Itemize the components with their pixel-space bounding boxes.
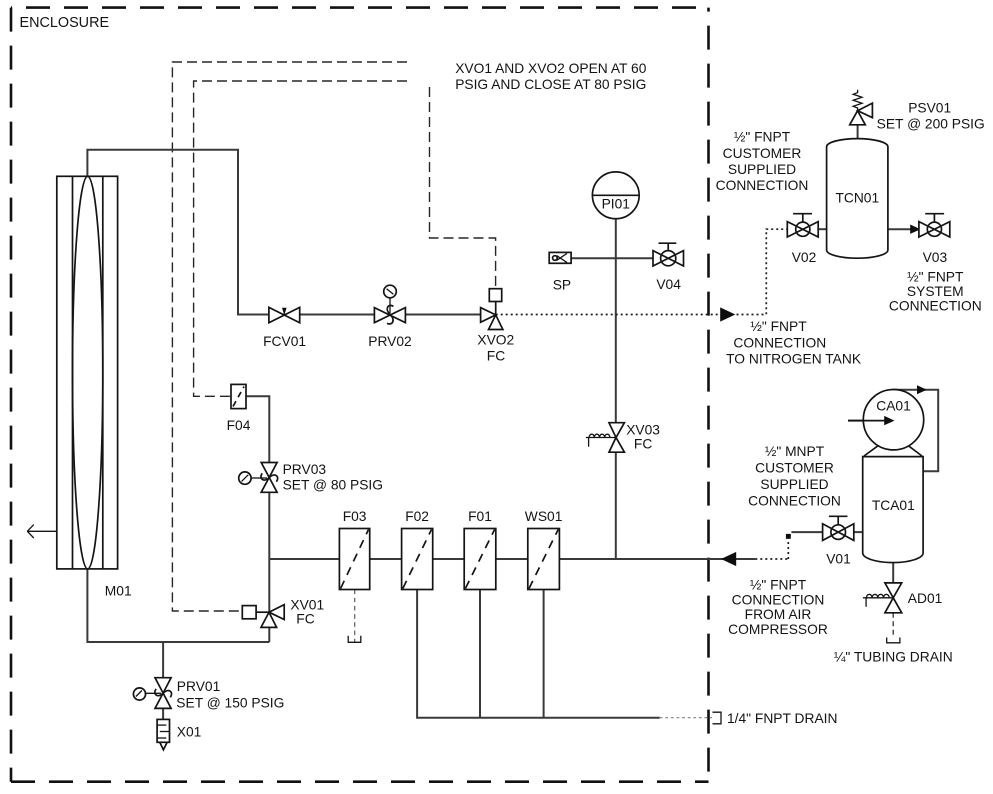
svg-text:TO NITROGEN TANK: TO NITROGEN TANK [726, 351, 862, 366]
svg-text:SUPPLIED: SUPPLIED [760, 477, 828, 492]
svg-text:SET @ 200 PSIG: SET @ 200 PSIG [877, 116, 985, 131]
svg-text:TCN01: TCN01 [835, 191, 879, 206]
svg-text:CONNECTION: CONNECTION [889, 299, 982, 314]
svg-text:V01: V01 [826, 552, 851, 567]
svg-text:XV03: XV03 [626, 423, 660, 438]
svg-text:1/4" FNPT DRAIN: 1/4" FNPT DRAIN [727, 711, 837, 726]
svg-text:COMPRESSOR: COMPRESSOR [728, 622, 828, 637]
svg-text:PSV01: PSV01 [908, 101, 951, 116]
svg-text:PI01: PI01 [602, 197, 630, 212]
svg-text:FC: FC [634, 437, 652, 452]
svg-text:M01: M01 [105, 584, 132, 599]
svg-text:½" FNPT: ½" FNPT [907, 270, 964, 285]
svg-text:SP: SP [553, 278, 571, 293]
svg-text:CONNECTION: CONNECTION [748, 494, 841, 509]
svg-text:SYSTEM: SYSTEM [907, 284, 964, 299]
svg-text:XVO2: XVO2 [477, 333, 514, 348]
svg-text:CUSTOMER: CUSTOMER [755, 461, 834, 476]
svg-text:¼" TUBING DRAIN: ¼" TUBING DRAIN [834, 650, 953, 665]
svg-text:½" MNPT: ½" MNPT [765, 444, 825, 459]
svg-text:FCV01: FCV01 [263, 334, 306, 349]
svg-text:F02: F02 [405, 509, 429, 524]
svg-text:PRV01: PRV01 [177, 679, 220, 694]
svg-text:FC: FC [296, 612, 314, 627]
svg-text:½" FNPT: ½" FNPT [750, 319, 807, 334]
svg-text:SUPPLIED: SUPPLIED [728, 162, 796, 177]
svg-text:CONNECTION: CONNECTION [716, 178, 809, 193]
svg-text:TCA01: TCA01 [872, 498, 915, 513]
svg-text:SET @ 80 PSIG: SET @ 80 PSIG [283, 478, 383, 493]
svg-text:ENCLOSURE: ENCLOSURE [20, 15, 110, 31]
svg-text:V02: V02 [792, 250, 817, 265]
svg-text:AD01: AD01 [908, 591, 943, 606]
svg-text:SET @ 150 PSIG: SET @ 150 PSIG [176, 696, 284, 711]
svg-text:V04: V04 [656, 277, 681, 292]
svg-text:WS01: WS01 [525, 509, 563, 524]
svg-text:PRV03: PRV03 [283, 462, 327, 477]
svg-text:X01: X01 [177, 725, 202, 740]
svg-text:F03: F03 [343, 509, 367, 524]
svg-text:PSIG AND CLOSE AT 80 PSIG: PSIG AND CLOSE AT 80 PSIG [455, 77, 646, 92]
svg-text:FC: FC [487, 349, 505, 364]
svg-text:CONNECTION: CONNECTION [732, 592, 825, 607]
svg-text:FROM AIR: FROM AIR [745, 607, 812, 622]
svg-text:XVO1 AND XVO2 OPEN AT 60: XVO1 AND XVO2 OPEN AT 60 [455, 61, 647, 76]
svg-text:F04: F04 [227, 418, 251, 433]
svg-text:F01: F01 [468, 509, 492, 524]
svg-text:½" FNPT: ½" FNPT [750, 578, 807, 593]
svg-text:½" FNPT: ½" FNPT [734, 130, 791, 145]
svg-text:PRV02: PRV02 [368, 334, 411, 349]
svg-text:CUSTOMER: CUSTOMER [723, 146, 802, 161]
svg-text:CONNECTION: CONNECTION [733, 335, 826, 350]
svg-text:V03: V03 [923, 250, 948, 265]
svg-text:XV01: XV01 [290, 598, 324, 613]
svg-text:CA01: CA01 [876, 399, 911, 414]
